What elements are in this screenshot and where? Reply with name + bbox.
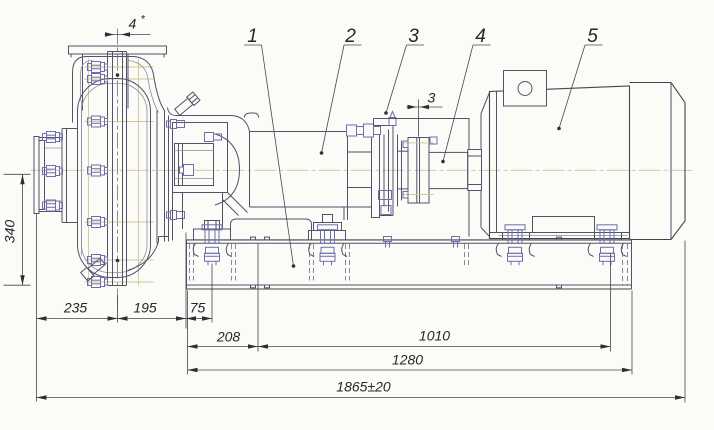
suction flange bbox=[34, 137, 39, 214]
studs on casing back bbox=[167, 120, 185, 220]
terminal box bbox=[504, 71, 547, 107]
casing back plates bbox=[156, 111, 158, 244]
stuffing box rings bbox=[383, 135, 385, 207]
top flange bbox=[187, 239, 632, 241]
row2 arrows bbox=[188, 344, 198, 348]
guard tube bbox=[232, 116, 348, 132]
leader shelf and line for item 1 (baseplate) bbox=[244, 44, 262, 46]
pump vertical centerline bbox=[117, 29, 119, 317]
gland bolts top bbox=[347, 124, 381, 137]
svg-text:3: 3 bbox=[428, 90, 436, 106]
svg-text:1010: 1010 bbox=[419, 328, 450, 344]
nameplate bbox=[533, 217, 595, 233]
split flange bolts (7) bbox=[88, 62, 108, 288]
top bolts on cartridge bbox=[205, 133, 222, 142]
hidden rib dashes bbox=[190, 244, 628, 285]
left shaft bbox=[398, 150, 409, 152]
row1 arrows bbox=[37, 316, 47, 320]
right hub bbox=[429, 152, 468, 188]
svg-text:1280: 1280 bbox=[392, 352, 423, 368]
dimension line row 4: 1865±20 bbox=[37, 397, 686, 399]
foundation bolts bbox=[202, 225, 617, 265]
weld ticks on flanges bbox=[251, 237, 562, 288]
cartridge bolt bbox=[180, 165, 194, 176]
motor body bbox=[490, 86, 630, 239]
axis centerline bbox=[31, 169, 693, 171]
coupling guard box bbox=[374, 119, 470, 150]
svg-text:195: 195 bbox=[133, 300, 157, 316]
casing inner wall bbox=[81, 101, 83, 256]
vent plug top right bbox=[174, 92, 200, 116]
3 arrows bbox=[408, 105, 417, 109]
suction cover bbox=[61, 129, 63, 223]
row4 arrows bbox=[37, 395, 47, 399]
dimension 4* (casing split gap) bbox=[105, 34, 151, 36]
disc bolts bbox=[403, 141, 408, 148]
frame pedestal bbox=[182, 193, 184, 230]
svg-text:235: 235 bbox=[63, 300, 88, 316]
motor side ring bbox=[468, 150, 482, 191]
svg-text:3: 3 bbox=[408, 26, 419, 47]
frame arc boss bbox=[215, 134, 240, 205]
shaft to gland bbox=[348, 151, 372, 153]
bottom flange bbox=[187, 284, 632, 286]
black dots on centerline bbox=[116, 73, 120, 77]
leader for item 2 (guard tube) bbox=[344, 44, 362, 46]
drain plug bottom left bbox=[81, 257, 106, 281]
svg-text:4: 4 bbox=[129, 16, 137, 32]
dimension line row 2: 208 / 1010 bbox=[188, 346, 611, 348]
row3 arrows bbox=[188, 368, 198, 372]
leader for item 5 (motor) bbox=[585, 44, 603, 46]
frame lower slants bbox=[228, 193, 248, 213]
vertical dimension 340 bbox=[22, 174, 24, 285]
dimension line row 1: 235 / 195 / 75 bbox=[37, 318, 213, 320]
claw hooks bbox=[193, 244, 626, 257]
motor bottom / feet bbox=[490, 232, 630, 234]
svg-text:4: 4 bbox=[475, 26, 486, 47]
svg-text:*: * bbox=[141, 14, 146, 26]
coupling discs bbox=[408, 138, 429, 204]
suction bolts (3) bbox=[43, 132, 63, 212]
leader for item 3 (coupling guard) bbox=[407, 44, 425, 46]
bearing cartridge bbox=[175, 144, 214, 186]
grease nipple bbox=[389, 112, 396, 126]
extension lines bbox=[36, 214, 38, 402]
gland bolt bottom bbox=[379, 191, 392, 215]
tan bolt-circle verticals on casing bbox=[88, 59, 90, 286]
svg-text:75: 75 bbox=[190, 300, 206, 316]
discharge flange bbox=[69, 46, 167, 54]
svg-text:208: 208 bbox=[216, 329, 241, 345]
gland plate bbox=[372, 126, 380, 218]
guard foot bbox=[314, 223, 342, 231]
340 arrows bbox=[20, 174, 24, 184]
frame foot bolt head bbox=[205, 221, 220, 230]
volute casing oval bbox=[78, 79, 151, 278]
tan bolt row centerlines on casing bbox=[85, 66, 154, 68]
casing upper body bbox=[73, 57, 87, 123]
svg-text:5: 5 bbox=[587, 26, 598, 47]
svg-text:340: 340 bbox=[2, 220, 18, 244]
bearing frame housing bbox=[168, 108, 232, 116]
svg-text:2: 2 bbox=[344, 26, 356, 47]
casing split flange band bbox=[107, 52, 109, 286]
lifting lug bbox=[245, 113, 259, 118]
4* arrows bbox=[105, 32, 114, 36]
motor bell front bbox=[481, 93, 490, 114]
dimension 3 (coupling gap) bbox=[407, 106, 443, 108]
leader for item 4 (coupling) bbox=[473, 44, 491, 46]
fan cover bbox=[630, 83, 686, 240]
small guard hold bolts bbox=[384, 237, 460, 248]
svg-text:1865±20: 1865±20 bbox=[336, 379, 391, 395]
dimension line row 3: 1280 bbox=[188, 369, 633, 371]
svg-text:1: 1 bbox=[247, 26, 258, 47]
guard support bracket bbox=[231, 219, 312, 241]
